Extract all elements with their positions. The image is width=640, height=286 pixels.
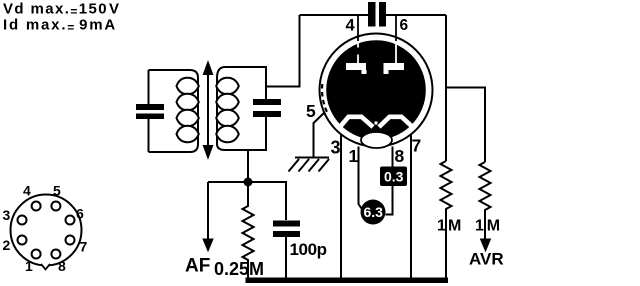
svg-text:4: 4	[346, 17, 356, 35]
wire junction left to AF	[208, 181, 248, 183]
cathode dome	[361, 132, 392, 148]
tube V1 envelope	[320, 34, 433, 147]
node junction detector output	[244, 178, 253, 187]
socket pin 2 hole	[18, 236, 27, 245]
wire 100p to bus	[285, 237, 287, 280]
capacitor C1 primary tuning	[136, 104, 164, 119]
svg-text:6: 6	[400, 17, 409, 34]
wire pin7 to bus	[410, 135, 412, 280]
svg-text:7: 7	[412, 136, 422, 156]
secondary tank wires	[217, 15, 300, 182]
svg-text:2: 2	[3, 237, 11, 253]
socket key notch	[41, 264, 50, 270]
wire pin3 to bus	[340, 135, 342, 280]
coil L1 primary winding	[177, 78, 199, 142]
anode plate pin6 lead inside	[395, 41, 397, 63]
wire top line right to 1M	[445, 15, 447, 161]
socket pin 3 hole	[18, 216, 27, 225]
resistor R1 0.25M	[243, 182, 254, 280]
svg-text:0.25M: 0.25M	[214, 259, 264, 279]
svg-text:M: M	[448, 218, 461, 235]
wire pin5 to ground	[314, 113, 325, 158]
socket pin 1 hole	[32, 250, 41, 259]
primary tank wires	[149, 70, 199, 152]
wire pin4 lead	[357, 15, 359, 41]
svg-text:5: 5	[306, 101, 316, 121]
anode plate pin4 lead inside	[357, 41, 359, 63]
capacitor C4 100p	[273, 221, 300, 238]
svg-text:100p: 100p	[290, 240, 327, 259]
svg-text:6: 6	[76, 206, 84, 222]
svg-text:1: 1	[25, 258, 33, 274]
svg-text:AF: AF	[185, 256, 210, 277]
socket pin 7 hole	[66, 236, 75, 245]
svg-text:AVR: AVR	[469, 250, 504, 269]
anode plate left	[346, 63, 366, 70]
svg-text:8: 8	[395, 146, 405, 166]
heater voltage circle 6.3	[361, 200, 386, 225]
tube socket base view	[11, 195, 82, 266]
resistor R2 1M	[441, 161, 452, 211]
socket pin 4 hole	[32, 202, 41, 211]
capacitor C3 top coupling	[368, 2, 386, 27]
svg-text:3: 3	[331, 138, 341, 158]
ground bus	[246, 278, 449, 284]
resistor R3 1M	[480, 162, 491, 211]
deflection electrode right	[379, 117, 412, 127]
AF arrow	[207, 182, 209, 240]
wire top line to grid cap	[300, 14, 447, 16]
wire junction right to 100p	[248, 182, 286, 220]
wire pin1 heater lead	[359, 147, 362, 209]
socket pin 5 hole	[51, 202, 60, 211]
svg-text:Id max.=9mA: Id max.=9mA	[3, 17, 117, 35]
deflection electrode center tick	[375, 122, 378, 125]
svg-text:1: 1	[437, 218, 446, 235]
svg-text:1: 1	[349, 146, 359, 166]
svg-text:8: 8	[58, 258, 66, 274]
capacitor C2 secondary tuning	[253, 99, 281, 117]
coil L2 secondary winding	[216, 78, 239, 142]
svg-text:1: 1	[475, 218, 484, 235]
tube V1 target disc	[326, 40, 426, 140]
svg-text:7: 7	[80, 239, 88, 255]
svg-text:3: 3	[3, 207, 11, 223]
tuning arrow between windings	[204, 63, 212, 157]
svg-text:5: 5	[53, 183, 61, 199]
wire pin8 heater lead	[386, 147, 393, 215]
wire branch to AVR resistor	[446, 88, 485, 163]
deflection electrode left	[340, 117, 374, 128]
svg-text:4: 4	[23, 183, 31, 199]
heater current box 0.3	[380, 167, 407, 187]
svg-text:M: M	[487, 218, 500, 235]
pin5 shield dashed arc	[322, 84, 327, 113]
socket pin 6 hole	[66, 216, 75, 225]
anode plate right	[384, 63, 405, 70]
AVR arrow	[484, 211, 486, 241]
wire pin6 lead	[395, 15, 397, 41]
svg-text:6.3: 6.3	[364, 204, 384, 220]
ground symbol	[289, 158, 330, 172]
socket pin 8 hole	[51, 250, 60, 259]
svg-text:0.3: 0.3	[384, 169, 404, 185]
